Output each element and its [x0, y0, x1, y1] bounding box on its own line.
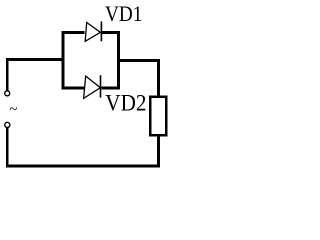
svg-text:VD2: VD2	[105, 89, 146, 115]
svg-text:~: ~	[9, 102, 17, 118]
wire bridge left vertical (node A junction of VD1/VD2 anodes)	[62, 31, 65, 89]
wire bottom horizontal return	[6, 165, 160, 168]
diode VD1 cathode bar	[101, 21, 103, 41]
wire left vertical to top terminal	[6, 58, 8, 91]
wire resistor top vertical	[157, 59, 160, 96]
wire middle right horizontal (node B to resistor)	[117, 59, 160, 62]
svg-text:VD1: VD1	[105, 3, 142, 26]
wire resistor bottom vertical	[157, 136, 160, 168]
wire bottom branch right (cathode VD2)	[102, 87, 121, 90]
terminal circle bottom (AC input)	[5, 122, 10, 127]
wire left vertical from bottom terminal	[6, 128, 8, 165]
wire top branch left (anode VD1)	[62, 31, 85, 34]
diode VD1 triangle	[85, 23, 100, 42]
wire bridge right vertical (node B junction of VD1/VD2 cathodes)	[117, 31, 120, 89]
wire top branch right (cathode VD1)	[102, 31, 120, 34]
diode VD2 cathode bar	[100, 75, 102, 97]
diode VD2 triangle	[84, 76, 101, 98]
wire bottom branch left (anode VD2)	[62, 87, 85, 90]
wire middle left horizontal (node A to AC source top terminal)	[6, 58, 65, 61]
resistor R (load)	[150, 97, 166, 135]
terminal circle top (AC input)	[5, 91, 10, 96]
